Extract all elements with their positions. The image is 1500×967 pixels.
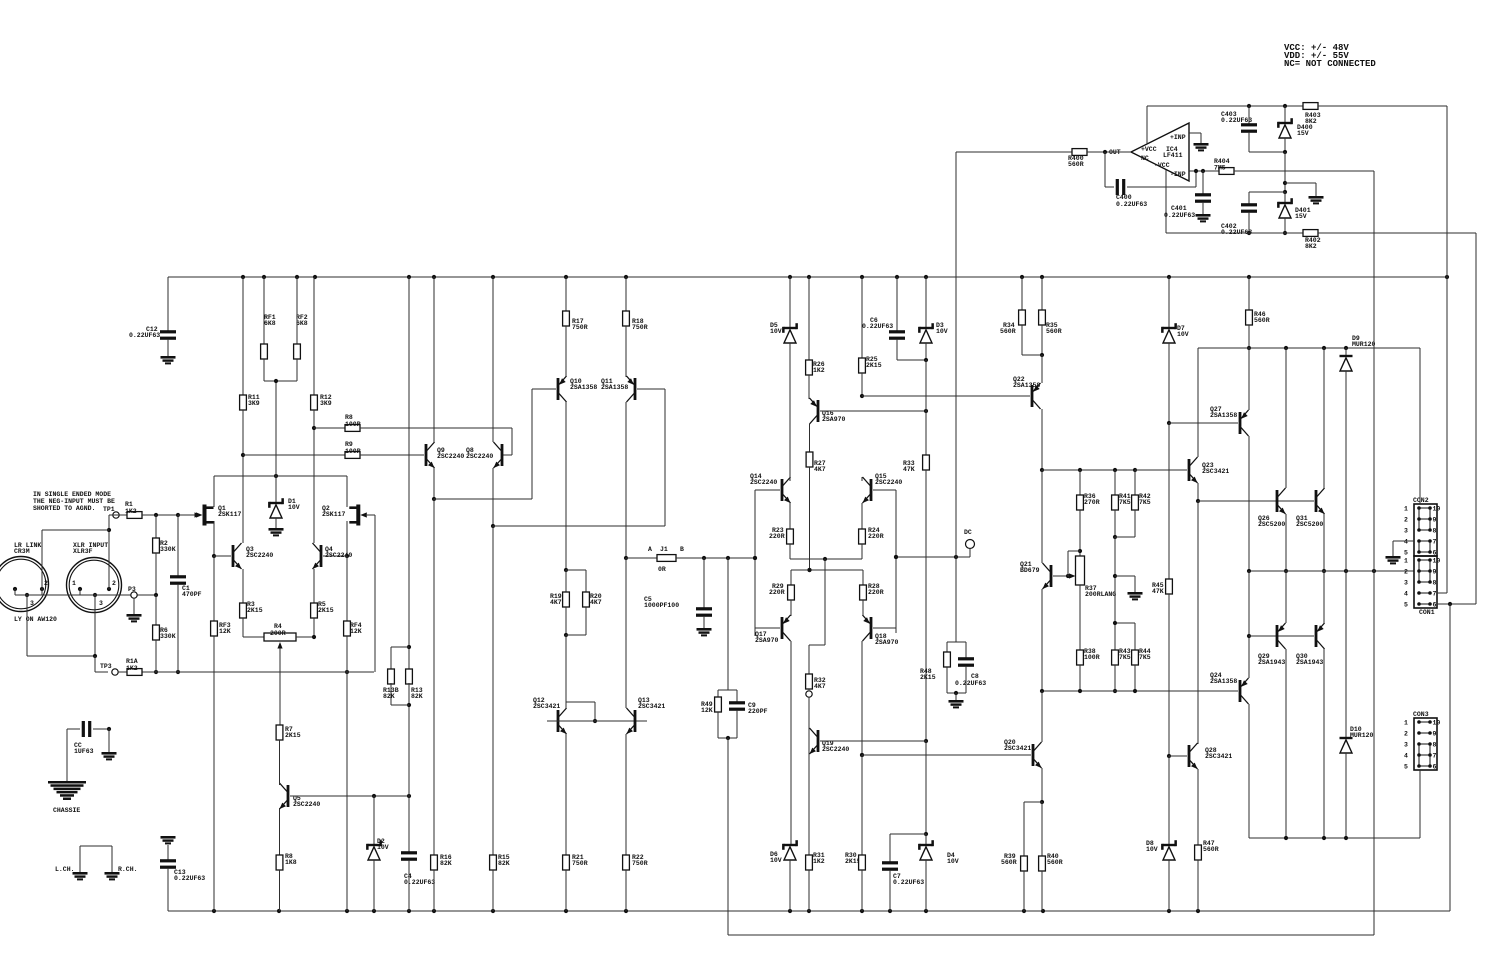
svg-text:1: 1	[1404, 720, 1408, 727]
capacitor C13	[160, 859, 205, 911]
transistor Q16 2SA970	[810, 398, 929, 452]
svg-text:6K8: 6K8	[296, 320, 308, 327]
capacitor C9	[718, 690, 768, 935]
svg-text:3K9: 3K9	[248, 400, 260, 407]
transistor Q5 2SC2240	[280, 782, 412, 855]
wire servo negative feed	[1166, 170, 1303, 233]
svg-text:750R: 750R	[572, 860, 588, 867]
resistor RF3	[211, 556, 231, 911]
svg-text:560R: 560R	[1046, 328, 1062, 335]
svg-text:NC= NOT CONNECTED: NC= NOT CONNECTED	[1284, 59, 1376, 69]
wire servo output drop	[955, 152, 957, 642]
svg-text:10V: 10V	[770, 328, 782, 335]
svg-text:12K: 12K	[350, 628, 362, 635]
svg-text:750R: 750R	[632, 324, 648, 331]
svg-text:4K7: 4K7	[814, 683, 826, 690]
transistor Q8 2SC2240	[466, 277, 503, 528]
node P3	[128, 586, 137, 598]
svg-text:TP1: TP1	[103, 506, 115, 513]
svg-text:1000PF100: 1000PF100	[644, 602, 679, 609]
svg-text:0.22UF63: 0.22UF63	[129, 332, 160, 339]
resistor R13B	[383, 647, 409, 705]
resistor R2	[153, 515, 176, 597]
transistor Q26 2SC5200	[1258, 348, 1288, 573]
wire Q9 Q8 emitters to Q10 base	[434, 389, 532, 499]
capacitor C7	[882, 834, 924, 911]
connector XLR INPUT XLR3F	[67, 542, 122, 613]
svg-text:CHASSIE: CHASSIE	[53, 807, 80, 814]
resistor R41	[1112, 470, 1131, 539]
svg-text:CON2: CON2	[1413, 497, 1429, 504]
transistor Q2 2SK117	[322, 476, 375, 672]
svg-text:470PF: 470PF	[182, 591, 202, 598]
svg-text:0.22UF63: 0.22UF63	[955, 680, 986, 687]
svg-text:8K2: 8K2	[1305, 243, 1317, 250]
resistor R8 emitter	[276, 853, 297, 911]
wire output node	[1247, 569, 1414, 573]
svg-text:0.22UF63: 0.22UF63	[1164, 212, 1195, 219]
zener D2	[366, 796, 389, 911]
node DC test point	[964, 529, 975, 557]
wire PNP base rail	[1249, 635, 1314, 637]
wire bias top line	[1042, 468, 1186, 472]
svg-text:750R: 750R	[572, 324, 588, 331]
resistor R16	[431, 499, 452, 911]
resistor R402	[1303, 230, 1476, 604]
capacitor C12	[129, 277, 176, 356]
svg-text:MUR120: MUR120	[1352, 341, 1376, 348]
svg-text:IN SINGLE ENDED MODE: IN SINGLE ENDED MODE	[33, 491, 111, 498]
svg-text:2SA970: 2SA970	[822, 416, 846, 423]
zener D401	[1277, 192, 1311, 235]
ground AGND servo mid	[1309, 196, 1324, 204]
svg-text:+VCC: +VCC	[1141, 146, 1157, 153]
resistor R5	[311, 601, 334, 637]
svg-text:750R: 750R	[632, 860, 648, 867]
svg-text:2SC3421: 2SC3421	[638, 703, 665, 710]
resistor R3	[240, 601, 263, 637]
svg-text:R9: R9	[345, 441, 353, 448]
svg-text:2K15: 2K15	[318, 607, 334, 614]
resistor R7	[276, 650, 301, 782]
transistor Q14 2SC2240	[750, 473, 791, 636]
transistor Q23 2SC3421	[1135, 348, 1229, 503]
svg-text:0R: 0R	[658, 566, 666, 573]
svg-text:3K9: 3K9	[320, 400, 332, 407]
svg-text:220R: 220R	[868, 533, 884, 540]
wire NPN base rail	[1198, 500, 1314, 502]
svg-text:2SC3421: 2SC3421	[1205, 753, 1232, 760]
wire Q8 collector to Q11 base	[493, 389, 665, 855]
resistor R36	[1077, 470, 1100, 551]
transistor Q19 2SC2240	[809, 728, 926, 757]
resistor R21	[563, 854, 588, 911]
svg-text:2SC2240: 2SC2240	[246, 552, 273, 559]
svg-text:CON3: CON3	[1413, 711, 1429, 718]
svg-text:6: 6	[1433, 602, 1437, 609]
svg-text:4K7: 4K7	[814, 466, 826, 473]
resistor R44	[1113, 621, 1151, 691]
svg-text:330K: 330K	[160, 546, 176, 553]
svg-text:15V: 15V	[1297, 130, 1309, 137]
transistor Q12 2SC3421	[533, 635, 647, 855]
svg-text:-VCC: -VCC	[1154, 162, 1170, 169]
resistor R1A	[118, 658, 142, 675]
ground AGND at +INP	[1194, 143, 1209, 151]
ground AGND at P3	[127, 598, 142, 622]
svg-text:10: 10	[1433, 720, 1441, 727]
svg-text:560R: 560R	[1254, 317, 1270, 324]
resistor R403	[1303, 103, 1447, 277]
svg-text:10: 10	[1433, 506, 1441, 513]
transistor Q3 2SC2240	[214, 455, 273, 603]
capacitor C401	[1164, 171, 1211, 219]
svg-text:12K: 12K	[701, 707, 713, 714]
svg-text:2: 2	[112, 580, 116, 587]
svg-text:2SC2240: 2SC2240	[750, 479, 777, 486]
transistor Q9 2SC2240	[425, 277, 465, 501]
resistor R38	[1077, 648, 1100, 691]
svg-text:R1A: R1A	[126, 658, 138, 665]
resistor R1	[109, 501, 196, 518]
ground AGND below C8	[949, 700, 964, 708]
resistor R6	[153, 595, 176, 672]
zener D400	[1277, 106, 1313, 152]
resistor R45	[1152, 423, 1172, 758]
transistor Q22 2SA1358	[862, 355, 1044, 472]
svg-text:LY ON AW120: LY ON AW120	[14, 616, 57, 623]
svg-text:10V: 10V	[770, 857, 782, 864]
resistor R13	[406, 277, 423, 796]
wire feedback output column	[1373, 171, 1375, 935]
svg-text:10V: 10V	[1177, 331, 1189, 338]
svg-text:8: 8	[1433, 528, 1437, 535]
note single-ended mode text	[33, 491, 115, 512]
resistor R33	[903, 360, 929, 743]
ground AGND R.CH.	[105, 866, 138, 880]
wire drain tie	[214, 474, 347, 478]
zener D1	[268, 381, 300, 528]
svg-text:4K7: 4K7	[590, 599, 602, 606]
svg-text:7: 7	[1433, 539, 1437, 546]
svg-text:L.CH.: L.CH.	[55, 866, 75, 873]
svg-text:2SC5200: 2SC5200	[1258, 521, 1285, 528]
zener D5	[770, 277, 798, 477]
wire mid divider AGND tap	[1113, 537, 1135, 623]
svg-text:10V: 10V	[288, 504, 300, 511]
svg-text:9: 9	[1433, 731, 1437, 738]
connector CON2	[1404, 497, 1440, 557]
wire collector top line	[1198, 346, 1420, 350]
resistor R24	[859, 527, 884, 559]
svg-text:7M5: 7M5	[1214, 165, 1226, 172]
ground AGND L.CH.	[55, 866, 88, 880]
svg-text:12K: 12K	[219, 628, 231, 635]
svg-text:82K: 82K	[383, 693, 395, 700]
svg-text:1: 1	[1404, 558, 1408, 565]
connector CON3	[1404, 711, 1440, 771]
svg-text:2SA1358: 2SA1358	[1210, 678, 1237, 685]
svg-text:3: 3	[1404, 742, 1408, 749]
svg-text:82K: 82K	[498, 860, 510, 867]
svg-text:9: 9	[1433, 517, 1437, 524]
svg-text:0.22UF63: 0.22UF63	[1221, 117, 1252, 124]
ground AGND divider	[1128, 592, 1143, 600]
trimmer R37 200RLANG	[1068, 549, 1116, 650]
resistor RF4	[344, 556, 362, 911]
zener D4	[918, 834, 959, 911]
svg-text:R4: R4	[274, 623, 282, 630]
svg-text:NC: NC	[1141, 155, 1149, 162]
wire bias bottom line	[1040, 689, 1238, 693]
ground AGND below C401	[1196, 214, 1211, 222]
transistor Q30 2SA1943	[1296, 571, 1325, 838]
resistor R49	[701, 558, 737, 738]
resistor R28	[860, 570, 884, 616]
resistor R20	[566, 570, 602, 635]
svg-text:5: 5	[1404, 550, 1408, 557]
capacitor C402	[1221, 192, 1285, 236]
resistor R8 100R	[314, 414, 512, 455]
svg-text:2SC2240: 2SC2240	[875, 479, 902, 486]
svg-text:2SC3421: 2SC3421	[1202, 468, 1229, 475]
resistor R48	[920, 642, 966, 693]
capacitor C403	[1221, 106, 1257, 152]
resistor R39	[1001, 802, 1042, 911]
svg-text:2K15: 2K15	[285, 732, 301, 739]
svg-text:2: 2	[1404, 517, 1408, 524]
ground AGND above C13	[161, 836, 176, 860]
wire DC sense line	[894, 555, 966, 559]
svg-text:200RLANG: 200RLANG	[1085, 591, 1116, 598]
svg-text:1: 1	[72, 580, 76, 587]
resistor R17	[563, 277, 588, 377]
transistor Q31 2SC5200	[1296, 348, 1326, 573]
resistor R32	[806, 674, 826, 690]
wire R23 R24 join	[790, 557, 862, 561]
svg-text:200R: 200R	[270, 630, 286, 637]
resistor R30	[845, 755, 865, 911]
svg-text:220R: 220R	[769, 533, 785, 540]
svg-text:LF411: LF411	[1163, 152, 1183, 159]
wire +INP to ground	[1189, 133, 1201, 143]
transistor Q18 2SA970	[860, 615, 899, 757]
transistor Q28 2SC3421	[1169, 743, 1232, 845]
svg-text:XLR3F: XLR3F	[73, 548, 93, 555]
svg-text:7K5: 7K5	[1139, 654, 1151, 661]
svg-text:B: B	[680, 546, 684, 553]
svg-text:2K15: 2K15	[866, 362, 882, 369]
capacitor C4	[401, 796, 435, 911]
svg-text:560R: 560R	[1068, 161, 1084, 168]
svg-text:10V: 10V	[1146, 846, 1158, 853]
connector CON1	[1404, 556, 1440, 616]
note LY ON AW120	[14, 616, 57, 623]
svg-text:1K2: 1K2	[813, 858, 825, 865]
wire +rail to CON1 pin4	[1437, 277, 1447, 593]
wire +48V top rail	[168, 275, 1449, 279]
ground CHASSIE	[48, 781, 86, 814]
svg-text:3: 3	[99, 600, 103, 607]
ground AGND below C12	[161, 356, 176, 364]
svg-text:47K: 47K	[1152, 588, 1164, 595]
svg-text:100R: 100R	[1084, 654, 1100, 661]
resistor R22	[623, 854, 648, 911]
svg-text:2SA1358: 2SA1358	[1210, 412, 1237, 419]
transistor Q21 BD679	[1020, 470, 1070, 691]
capacitor C1	[170, 515, 202, 672]
resistor R9 100R	[243, 441, 424, 458]
svg-text:+INP: +INP	[1170, 134, 1186, 141]
transistor Q15 2SC2240	[862, 473, 902, 633]
svg-text:1: 1	[1404, 506, 1408, 513]
svg-text:270R: 270R	[1084, 499, 1100, 506]
svg-text:R1: R1	[125, 501, 133, 508]
svg-text:1K2: 1K2	[126, 665, 138, 672]
capacitor C8	[947, 642, 986, 700]
svg-text:10: 10	[1433, 558, 1441, 565]
svg-text:2SA970: 2SA970	[875, 639, 899, 646]
transistor Q1 2SK117	[178, 476, 242, 558]
svg-text:THE NEG-INPUT MUST BE: THE NEG-INPUT MUST BE	[33, 498, 115, 505]
resistor R23	[769, 527, 793, 559]
svg-text:7K5: 7K5	[1119, 654, 1131, 661]
svg-text:0.22UF63: 0.22UF63	[1116, 201, 1147, 208]
svg-text:3: 3	[30, 600, 34, 607]
svg-text:220PF: 220PF	[748, 708, 768, 715]
zener D6	[770, 840, 798, 911]
resistor R25	[859, 277, 882, 398]
zener D3	[918, 277, 948, 362]
svg-text:7: 7	[1433, 753, 1437, 760]
svg-text:3: 3	[1404, 580, 1408, 587]
svg-text:DC: DC	[964, 529, 972, 536]
resistor R31	[806, 755, 825, 911]
wire Q23 emitter to Q28 collector	[1197, 501, 1199, 744]
svg-text:C400: C400	[1116, 194, 1132, 201]
svg-text:9: 9	[1433, 569, 1437, 576]
svg-text:560R: 560R	[1000, 328, 1016, 335]
svg-text:1UF63: 1UF63	[74, 748, 94, 755]
zener D8	[1146, 756, 1177, 911]
svg-text:TP3: TP3	[100, 663, 112, 670]
capacitor CC chassis	[67, 721, 111, 781]
svg-text:BD679: BD679	[1020, 567, 1040, 574]
svg-text:2K15: 2K15	[920, 674, 936, 681]
ground AGND below C5	[697, 628, 712, 636]
op-amp IC4 LF411	[1109, 123, 1189, 181]
transistor Q17 2SA970	[755, 615, 791, 845]
svg-text:1K2: 1K2	[813, 367, 825, 374]
transistor Q27 2SA1358	[1169, 348, 1249, 571]
resistor R12	[311, 277, 332, 430]
node TP2	[806, 691, 812, 729]
transistor Q4 2SC2240	[313, 428, 353, 603]
resistor R11	[240, 277, 260, 457]
svg-text:2SK117: 2SK117	[322, 511, 346, 518]
resistor R27	[806, 452, 826, 572]
wire XLR pin2 to input	[42, 515, 111, 589]
resistor RF1	[261, 277, 276, 381]
svg-text:8: 8	[1433, 580, 1437, 587]
svg-text:2SA1943: 2SA1943	[1296, 659, 1323, 666]
svg-text:100R: 100R	[345, 448, 361, 455]
resistor RF2	[294, 277, 308, 381]
transistor Q11 2SA1358	[601, 376, 665, 560]
svg-text:4K7: 4K7	[550, 599, 562, 606]
svg-text:6: 6	[1433, 764, 1437, 771]
svg-text:7K5: 7K5	[1119, 499, 1131, 506]
svg-text:5: 5	[1404, 764, 1408, 771]
svg-text:2SC3421: 2SC3421	[533, 703, 560, 710]
capacitor C6	[862, 277, 926, 360]
svg-text:R.CH.: R.CH.	[118, 866, 138, 873]
svg-text:4: 4	[1404, 753, 1408, 760]
resistor R34	[1000, 277, 1042, 355]
jumper J1 0R	[626, 546, 757, 573]
svg-text:MUR120: MUR120	[1350, 732, 1374, 739]
wire servo clamp mid	[1249, 150, 1316, 196]
svg-text:2SA970: 2SA970	[755, 637, 779, 644]
svg-text:-INP: -INP	[1170, 171, 1186, 178]
svg-text:C8: C8	[971, 673, 979, 680]
capacitor C5	[644, 558, 712, 628]
resistor R46	[1246, 277, 1270, 350]
diode D10 MUR120	[1340, 571, 1374, 838]
svg-text:100R: 100R	[345, 421, 361, 428]
svg-text:4: 4	[1404, 591, 1408, 598]
resistor R19	[550, 570, 569, 637]
wire Q19 base / D4 branch	[890, 741, 928, 836]
svg-text:SHORTED TO AGND.: SHORTED TO AGND.	[33, 505, 95, 512]
svg-text:R8: R8	[345, 414, 353, 421]
wire R29 R28 join	[791, 568, 863, 572]
svg-text:2SC2240: 2SC2240	[437, 453, 464, 460]
diode D9 MUR120	[1340, 335, 1376, 571]
connector XLR LINK CR3M	[0, 542, 49, 612]
wire collector bottom line	[1249, 836, 1420, 840]
resistor R40	[1039, 802, 1063, 911]
svg-text:2SC5200: 2SC5200	[1296, 521, 1323, 528]
wire CON3 to bottom collectors	[1419, 770, 1421, 838]
wire servo positive feed	[1147, 104, 1447, 144]
wire -48V bottom rail	[168, 909, 1450, 913]
svg-text:3: 3	[1404, 528, 1408, 535]
svg-text:10V: 10V	[936, 328, 948, 335]
svg-text:7K5: 7K5	[1139, 499, 1151, 506]
resistor R400	[956, 149, 1131, 168]
capacitor C400	[1105, 152, 1196, 208]
svg-text:5: 5	[1404, 602, 1408, 609]
svg-text:2SA1358: 2SA1358	[601, 384, 628, 391]
svg-text:0.22UF63: 0.22UF63	[893, 879, 924, 886]
ground AGND right of CC	[102, 729, 117, 760]
svg-text:560R: 560R	[1001, 859, 1017, 866]
wire shield bus / P3 net	[15, 595, 156, 658]
svg-text:82K: 82K	[440, 860, 452, 867]
svg-text:1K8: 1K8	[285, 859, 297, 866]
svg-text:CR3M: CR3M	[14, 548, 30, 555]
svg-text:0.22UF63: 0.22UF63	[174, 875, 205, 882]
legend supply voltages	[1284, 43, 1376, 69]
svg-text:82K: 82K	[411, 693, 423, 700]
resistor R35	[1039, 277, 1062, 357]
resistor R404	[1189, 158, 1374, 174]
svg-text:2SK117: 2SK117	[218, 511, 242, 518]
svg-text:0.22UF63: 0.22UF63	[862, 323, 893, 330]
ground AGND below D1	[269, 528, 284, 536]
svg-text:15V: 15V	[1295, 213, 1307, 220]
